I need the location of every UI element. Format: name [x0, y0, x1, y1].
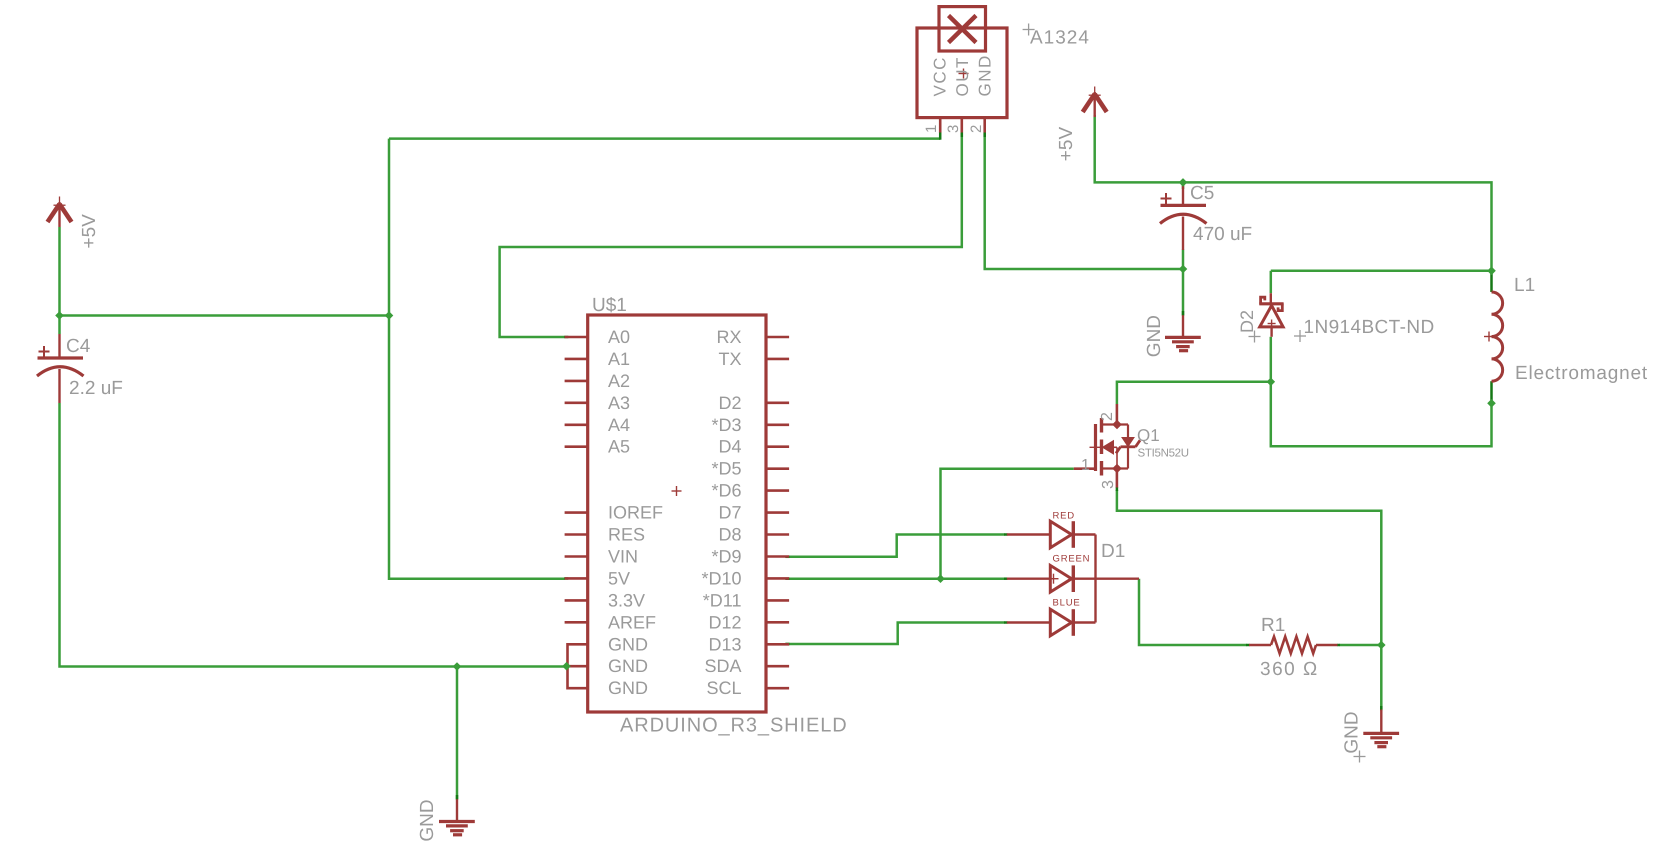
wire R1 node to GND symbol: [1380, 645, 1383, 710]
svg-text:360 Ω: 360 Ω: [1260, 659, 1319, 680]
svg-text:D1: D1: [1101, 541, 1125, 562]
A1324 pin numbers: [923, 125, 985, 133]
A1324 label origin cross: [1023, 24, 1035, 36]
A1324 label: [1030, 28, 1090, 49]
R1 label: [1261, 615, 1285, 636]
svg-text:BLUE: BLUE: [1053, 597, 1081, 608]
wire A1324 OUT pin 3 to Arduino A0: [500, 133, 962, 337]
wire C5 top lead: [1182, 182, 1185, 189]
capacitor C5: [1160, 182, 1207, 250]
U$1 right pin labels: [701, 327, 741, 698]
pin tip Arduino D10: [785, 577, 789, 580]
svg-text:A0: A0: [608, 327, 630, 347]
junction node C5 bottom GND net: [1179, 265, 1188, 274]
junction node C4 +5V: [55, 311, 64, 320]
resistor R1: [1249, 637, 1338, 654]
svg-text:RED: RED: [1053, 510, 1075, 521]
pin tip GND1: [456, 795, 459, 800]
svg-text:2: 2: [968, 125, 985, 133]
pin tip R1 right: [1337, 644, 1340, 647]
L1 value label: [1515, 363, 1648, 384]
svg-text:3: 3: [945, 125, 962, 133]
U$1 reference label: [592, 295, 627, 316]
pin tip LED blue anode: [1004, 621, 1008, 624]
svg-text:D13: D13: [708, 634, 741, 654]
svg-text:GND: GND: [417, 799, 438, 841]
U$1 right pin stubs: [766, 337, 789, 688]
LED D1 common cathode rail: [1094, 535, 1096, 623]
svg-text:A5: A5: [608, 437, 630, 457]
svg-text:1: 1: [1081, 457, 1090, 474]
GND label (bottom left): [417, 799, 438, 841]
LED D1 GREEN: [1007, 565, 1139, 592]
D2 origin cross: [1268, 320, 1276, 328]
svg-text:SCL: SCL: [706, 678, 741, 698]
wire ground bus to GND symbol: [456, 667, 459, 800]
LED D1 GREEN label: [1053, 553, 1091, 564]
svg-text:D12: D12: [708, 612, 741, 632]
svg-text:GND: GND: [608, 634, 648, 654]
svg-text:RES: RES: [608, 525, 645, 545]
wire +5V left supply down to C4: [58, 227, 61, 334]
wire Q1 source to R1 node: [1117, 490, 1381, 645]
svg-text:AREF: AREF: [608, 612, 656, 632]
pin tip GND2: [1182, 311, 1185, 316]
svg-text:GND: GND: [608, 678, 648, 698]
pin tip Arduino A0: [564, 336, 568, 339]
wire +5V supply to L1 top rail: [1095, 115, 1492, 271]
svg-text:+5V: +5V: [79, 214, 100, 249]
A1324 pin names VCC OUT GND: [931, 54, 995, 96]
junction node L1 top: [1487, 267, 1496, 276]
junction node Arduino GND pins: [562, 662, 571, 671]
svg-text:470 uF: 470 uF: [1193, 224, 1252, 245]
svg-text:D4: D4: [718, 437, 741, 457]
wire node A to Arduino 5V pin: [389, 316, 565, 579]
ground GND below C5: [1165, 315, 1201, 351]
svg-text:C4: C4: [66, 336, 91, 357]
C4 labels: [66, 336, 123, 399]
pin tip LED red anode: [1004, 533, 1008, 536]
transistor Q1 MOSFET: [1074, 404, 1140, 488]
svg-text:*D5: *D5: [711, 459, 741, 479]
svg-text:OUT: OUT: [953, 56, 972, 96]
U$1 GND pins bracket: [567, 644, 588, 688]
supply +5V left: [48, 197, 72, 228]
svg-text:3: 3: [1100, 480, 1117, 489]
svg-text:GND: GND: [976, 54, 995, 96]
U$1 origin cross: [672, 486, 682, 496]
svg-text:A3: A3: [608, 393, 630, 413]
hall sensor A1324 body: [917, 7, 1007, 118]
svg-text:R1: R1: [1261, 615, 1285, 636]
svg-text:ARDUINO_R3_SHIELD: ARDUINO_R3_SHIELD: [620, 715, 848, 737]
svg-text:RX: RX: [716, 327, 741, 347]
pin tip Arduino D13: [785, 643, 789, 646]
wire C5 bottom to GND symbol: [1182, 250, 1185, 316]
svg-text:VIN: VIN: [608, 547, 638, 567]
pin tip A1324 pin2: [983, 132, 986, 137]
inductor L1 Electromagnet: [1492, 292, 1503, 381]
svg-text:GREEN: GREEN: [1053, 553, 1091, 564]
svg-text:1N914BCT-ND: 1N914BCT-ND: [1304, 317, 1435, 338]
svg-text:*D6: *D6: [711, 481, 741, 501]
A1324 origin cross: [959, 69, 969, 79]
svg-text:D7: D7: [718, 503, 741, 523]
D1 label: [1101, 541, 1125, 562]
junction node L1 bottom: [1487, 399, 1496, 408]
junction node D2 anode: [1267, 378, 1276, 387]
pin tip LED green anode: [1004, 577, 1008, 580]
wire Arduino D10 to Q1 gate: [941, 469, 1074, 579]
svg-text:Electromagnet: Electromagnet: [1515, 363, 1648, 384]
wire R1 right lead to node: [1340, 644, 1382, 647]
+5V left label: [79, 214, 100, 249]
svg-text:3.3V: 3.3V: [608, 590, 645, 610]
pin tip Arduino 5V: [564, 577, 568, 580]
wire C4 bottom to ground bus: [60, 403, 567, 667]
U$1 left pin stubs: [565, 337, 588, 622]
svg-text:TX: TX: [718, 349, 741, 369]
LED D1 BLUE: [1007, 609, 1096, 636]
U$1 left pin labels: [608, 327, 663, 698]
ARDUINO_R3_SHIELD U$1 box: [588, 315, 766, 712]
svg-text:*D10: *D10: [701, 568, 741, 588]
LED D1 RED: [1007, 521, 1096, 548]
GND right origin cross: [1354, 751, 1366, 763]
svg-text:SDA: SDA: [704, 656, 741, 676]
pin tip Q1 source: [1116, 487, 1119, 491]
svg-text:GND: GND: [1144, 315, 1165, 357]
pin L1 bottom: [1490, 381, 1493, 402]
wire Arduino D9 to LED RED anode: [785, 535, 1004, 557]
GND label (right): [1342, 711, 1363, 753]
svg-text:D8: D8: [718, 525, 741, 545]
wire Q1 drain to D2 anode node: [1117, 382, 1271, 404]
wire Arduino D13 to LED BLUE anode: [785, 623, 1004, 645]
wire +5V rail to node A (C4 branch): [60, 314, 390, 317]
D2 label: [1237, 310, 1257, 333]
wire bottom loop to L1 bottom: [1271, 382, 1492, 446]
svg-text:2.2 uF: 2.2 uF: [69, 378, 123, 399]
svg-text:A1: A1: [608, 349, 630, 369]
svg-text:L1: L1: [1514, 275, 1535, 296]
diode D2 1N914: [1259, 293, 1283, 337]
D1 origin cross: [1049, 574, 1059, 584]
svg-text:IOREF: IOREF: [608, 503, 663, 523]
pin tip A1324 pin1: [939, 132, 942, 140]
svg-text:5V: 5V: [608, 568, 630, 588]
ground GND right (R1 node): [1363, 710, 1399, 747]
Q1 labels: [1137, 426, 1189, 460]
svg-text:*D3: *D3: [711, 415, 741, 435]
LED D1 RED label: [1053, 510, 1075, 521]
pin L1 top: [1490, 272, 1493, 293]
wire D2 cathode to L1 top: [1271, 271, 1492, 293]
wire D2 anode down: [1270, 337, 1273, 382]
svg-text:1: 1: [923, 125, 940, 133]
svg-text:A2: A2: [608, 371, 630, 391]
svg-text:+5V: +5V: [1056, 127, 1077, 162]
D2 value label: [1304, 317, 1435, 338]
svg-text:GND: GND: [608, 656, 648, 676]
svg-text:A4: A4: [608, 415, 630, 435]
supply +5V right: [1083, 87, 1107, 118]
svg-text:2: 2: [1099, 412, 1116, 421]
svg-text:Q1: Q1: [1137, 426, 1160, 445]
R1 value label: [1260, 659, 1319, 680]
wire A1324 GND pin 2 to C5 GND node: [985, 133, 1183, 269]
ground GND bottom left: [439, 799, 475, 835]
junction node VCC branch: [385, 311, 394, 320]
svg-text:VCC: VCC: [931, 56, 950, 96]
U$1 value label: [620, 715, 848, 737]
svg-text:D2: D2: [718, 393, 741, 413]
junction node gate D10: [936, 574, 945, 583]
pin tip Arduino D9: [785, 556, 789, 559]
svg-text:*D9: *D9: [711, 547, 741, 567]
pin tip GND3: [1380, 706, 1383, 711]
junction node C5 top: [1179, 178, 1188, 187]
svg-text:U$1: U$1: [592, 295, 627, 316]
L1 label: [1514, 275, 1535, 296]
Q1 pin numbers: [1081, 412, 1117, 489]
svg-text:STI5N52U: STI5N52U: [1138, 448, 1189, 460]
L1 origin cross: [1484, 332, 1494, 342]
D2 value origin cross: [1294, 330, 1306, 342]
wire Arduino D10 to LED GREEN anode: [785, 577, 1004, 580]
A1324 pin stubs 1 3 2: [940, 118, 985, 133]
svg-text:A1324: A1324: [1030, 28, 1090, 49]
svg-text:D2: D2: [1237, 310, 1257, 333]
dark pin tips: [457, 132, 1492, 800]
+5V right label: [1056, 127, 1077, 162]
svg-text:GND: GND: [1342, 711, 1363, 753]
pin tip R1 left: [1246, 644, 1250, 647]
D2 label origin cross: [1249, 331, 1261, 343]
C5 labels: [1190, 183, 1252, 245]
wire D1 common cathode to R1: [1139, 579, 1247, 645]
svg-text:C5: C5: [1190, 183, 1214, 204]
GND label (C5): [1144, 315, 1165, 357]
LED D1 BLUE label: [1053, 597, 1081, 608]
wire +5V to A1324 VCC pin 1: [389, 139, 940, 317]
capacitor C4: [37, 334, 84, 403]
pin tip A1324 pin3: [961, 132, 964, 137]
junction node R1 GND: [1377, 641, 1386, 650]
junction node ground bus: [453, 662, 462, 671]
svg-text:*D11: *D11: [703, 590, 742, 610]
